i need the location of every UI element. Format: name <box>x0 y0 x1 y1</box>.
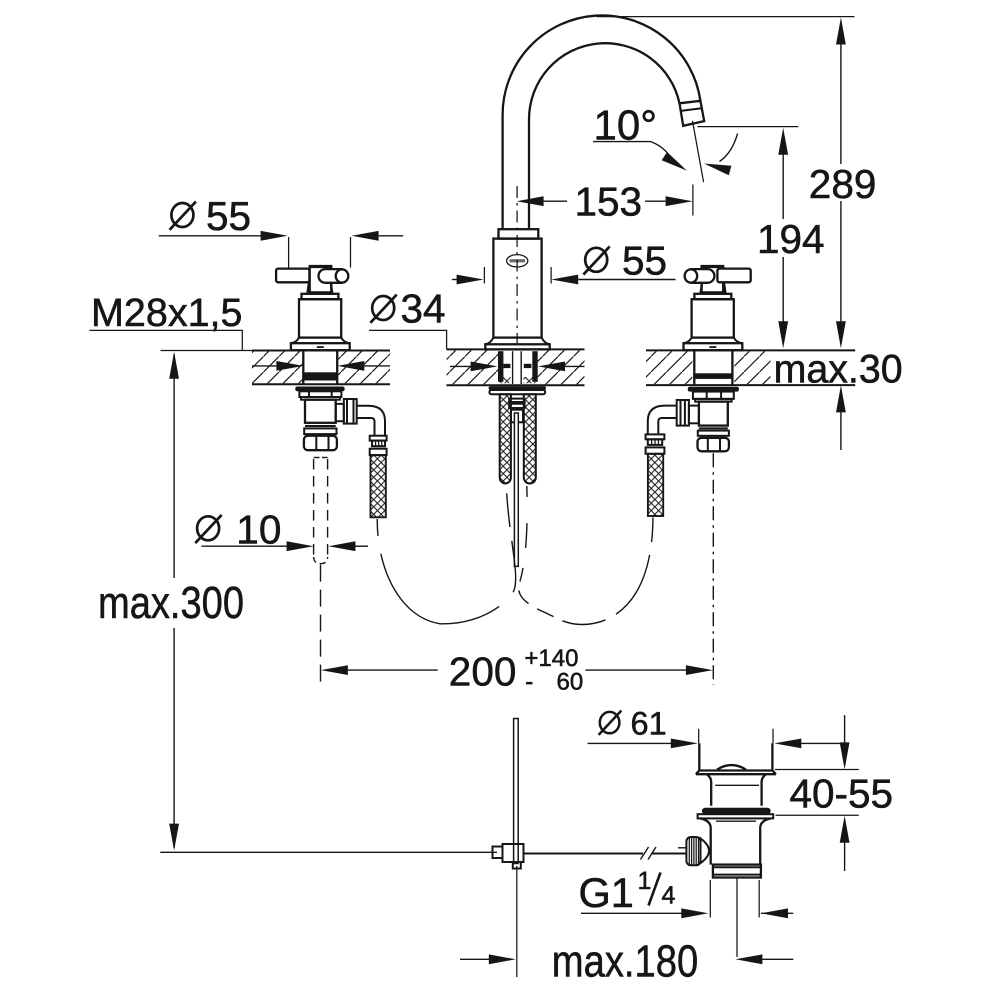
dim 10deg right arc <box>720 133 738 161</box>
right handle arm <box>717 269 750 283</box>
right handle front arm capsule <box>685 269 714 283</box>
nozzle centerline <box>693 121 704 182</box>
left elbow tube <box>357 406 385 436</box>
dim 289 line <box>840 40 842 164</box>
right handle stem <box>701 283 726 293</box>
popup lever <box>524 853 644 855</box>
right compression nut <box>698 438 729 452</box>
dim G1 line <box>581 912 682 914</box>
right nut step <box>695 399 732 402</box>
dim 200 line <box>348 669 438 671</box>
dim O61 extensions <box>698 729 700 744</box>
lever break marks <box>641 847 649 860</box>
dim 40-55 line <box>844 715 846 743</box>
left hose collar <box>370 436 387 441</box>
spout body <box>493 239 541 338</box>
center deck bottom line <box>447 384 585 386</box>
svg-text:4: 4 <box>662 882 676 910</box>
center deck top line <box>447 348 585 350</box>
waste rim <box>696 770 776 774</box>
svg-text:-: - <box>525 669 533 696</box>
svg-text:10: 10 <box>236 506 281 552</box>
center flange <box>489 390 545 394</box>
center deck hatch <box>447 350 499 384</box>
dim 289 text <box>804 165 876 201</box>
dim 10deg leader <box>593 142 672 159</box>
center shank hatch bits <box>500 377 511 383</box>
center tube inner collar <box>509 399 524 402</box>
dim O10 text <box>195 506 281 552</box>
left handle knob <box>336 269 349 282</box>
dim O10 line <box>202 545 288 547</box>
rod clamp tail <box>513 862 521 869</box>
dim max30 arrow below deck <box>840 410 842 450</box>
svg-text:289: 289 <box>809 161 877 207</box>
waste oring <box>702 808 771 814</box>
left handle bonnet <box>299 299 341 337</box>
spout outer contour <box>503 15 701 229</box>
right shank oring <box>693 373 733 379</box>
center shank walls <box>498 351 503 382</box>
svg-text:max.180: max.180 <box>552 936 698 987</box>
left hose crimp <box>372 441 385 447</box>
left deck bottom line <box>252 383 390 385</box>
left handle bonnet step <box>302 294 339 299</box>
right elbow tube <box>648 406 677 435</box>
right mounting nut <box>693 392 734 399</box>
dim max180 line <box>460 958 489 960</box>
grohe logo <box>507 255 528 267</box>
left center dashed line <box>320 565 322 685</box>
waste seat flange <box>698 814 774 818</box>
dim M28 leader <box>89 330 242 350</box>
dim G1 extensions <box>709 880 711 918</box>
flange top extension <box>775 769 859 771</box>
popup rod lower <box>514 719 519 864</box>
dim O34 text <box>370 286 445 332</box>
left U hose curve <box>377 486 515 624</box>
waste tail <box>713 865 761 878</box>
right centerline dashdot <box>712 453 714 685</box>
left valve outlet <box>336 404 344 421</box>
left valve bottom steps <box>305 425 336 427</box>
svg-text:55: 55 <box>206 193 251 239</box>
svg-text:194: 194 <box>757 216 825 262</box>
dim 153 line <box>544 200 567 202</box>
right handle bonnet <box>692 299 734 337</box>
right handle hub <box>702 266 724 292</box>
dim O55 left text <box>170 193 251 239</box>
right valve body <box>699 402 728 426</box>
left braided hose <box>371 455 386 517</box>
right valve bottom steps <box>699 427 728 429</box>
right hose collar <box>646 434 665 439</box>
left handle hub cap <box>309 265 332 268</box>
dim max300 text <box>92 580 250 623</box>
dim 153 extension line <box>692 185 694 216</box>
spout inner contour <box>529 43 680 229</box>
left handle stem <box>307 283 332 293</box>
ball housing bump <box>701 838 710 863</box>
center hole arrows <box>450 365 471 367</box>
svg-text:G1: G1 <box>579 869 634 916</box>
center shank blocks <box>503 364 510 368</box>
waste centerline below <box>736 878 738 958</box>
svg-text:40-55: 40-55 <box>790 771 894 817</box>
spout centerline <box>516 186 518 347</box>
svg-text:34: 34 <box>401 286 446 332</box>
svg-text:max.300: max.300 <box>98 577 244 628</box>
waste cup walls <box>698 743 700 770</box>
left deck hatch <box>252 351 303 383</box>
center threaded tube walls <box>500 394 511 483</box>
svg-text:200: 200 <box>449 649 517 695</box>
right handle base mark <box>709 346 716 348</box>
left shank oring <box>303 372 337 380</box>
right elbow nut <box>677 400 689 426</box>
dim O55 center line <box>452 279 458 281</box>
rod extension below <box>516 866 518 977</box>
seat extension <box>776 814 859 816</box>
left compression nut <box>304 436 337 451</box>
dim 40-55 text <box>786 775 890 811</box>
svg-text:M28x1,5: M28x1,5 <box>91 291 243 335</box>
svg-text:55: 55 <box>622 238 667 284</box>
right hose crimp <box>648 439 662 445</box>
right handle skirt <box>684 338 743 344</box>
right washer <box>688 387 739 392</box>
svg-text:153: 153 <box>575 178 643 224</box>
dim 194 line <box>782 152 784 219</box>
svg-text:1: 1 <box>638 867 652 895</box>
left handle skirt <box>291 338 350 344</box>
spout nozzle <box>680 101 705 126</box>
svg-text:60: 60 <box>557 669 584 696</box>
right braided hose <box>648 454 663 516</box>
dim O55 center extensions <box>483 267 485 284</box>
dim O55 left line <box>159 235 262 237</box>
right deck top line <box>646 349 855 351</box>
spout base plate <box>485 344 549 349</box>
bottom reference line <box>160 851 497 853</box>
right hose collar2 <box>646 447 665 453</box>
spout skirt <box>485 338 549 345</box>
dim O55 center text <box>583 238 667 284</box>
left elbow nut <box>344 399 357 424</box>
right handle bonnet step <box>694 294 731 299</box>
svg-text:61: 61 <box>631 706 667 742</box>
left valve body <box>305 400 336 423</box>
left deck hole arrows <box>252 365 277 367</box>
right valve outlet <box>689 406 699 424</box>
waste neck inner line <box>715 784 759 786</box>
left washer <box>295 387 344 392</box>
center rod guide <box>511 410 523 423</box>
right handle knob <box>685 269 698 282</box>
popup rod upper <box>514 413 518 566</box>
left nut step <box>301 397 340 400</box>
right deck hatch <box>646 351 692 384</box>
right handle hub cap <box>701 265 724 268</box>
waste neck <box>707 774 766 806</box>
top reference line <box>597 16 855 18</box>
left handle base plate <box>291 343 350 350</box>
center washer <box>489 386 546 390</box>
waste lower body <box>700 818 771 864</box>
dim max300 line <box>173 354 175 578</box>
left handle front arm capsule <box>319 269 348 283</box>
dim 10deg right arrow <box>703 159 732 175</box>
rod clamp block <box>503 844 524 862</box>
right U hose curve <box>519 486 653 625</box>
dashed tailpipe outline <box>314 457 320 459</box>
left deck top line <box>161 350 253 352</box>
dim O34 leader <box>369 330 447 349</box>
left hose collar2 <box>370 449 387 455</box>
left handle base mark <box>317 346 324 348</box>
knurled ball rosette <box>686 837 700 865</box>
dim O61 text <box>599 706 667 742</box>
right deck bottom line <box>646 384 855 386</box>
left shank through deck <box>302 351 304 385</box>
nozzle tip extension line <box>698 126 799 128</box>
waste plug dome <box>717 765 746 770</box>
right shank through deck <box>693 350 695 385</box>
left handle arm <box>276 269 309 283</box>
dim O61 line <box>588 742 672 744</box>
dim 10deg left arrow <box>662 152 690 175</box>
left handle hub <box>310 266 332 292</box>
rod clamp nub <box>493 847 503 859</box>
center shank slot <box>512 351 514 384</box>
waste body inner line <box>716 820 756 822</box>
dim O55 left extensions <box>288 237 290 268</box>
left mounting nut <box>299 391 341 397</box>
dim 194 text <box>754 220 816 256</box>
right handle base plate <box>684 343 743 350</box>
spout collar <box>499 229 539 238</box>
nozzle joint line <box>681 108 702 111</box>
